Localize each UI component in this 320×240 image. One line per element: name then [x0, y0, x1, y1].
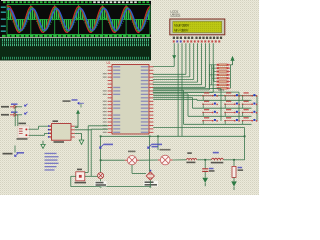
- wires MCU left to U2: [85, 126, 108, 177]
- svg-text:Vin =380V: Vin =380V: [174, 28, 189, 32]
- bridge rectifier D1: [144, 170, 159, 187]
- buzzer component: [95, 173, 107, 187]
- push button S9: [242, 109, 257, 116]
- schematic background grid: [0, 0, 259, 195]
- wire L2 right: [223, 159, 234, 161]
- svg-text:LM016L: LM016L: [171, 13, 181, 17]
- lamp U3 label: [128, 151, 136, 153]
- push button S5: [224, 101, 239, 109]
- crystal X1: [75, 172, 87, 184]
- power symbol arrow right of resistor network: [230, 56, 234, 65]
- keypad row wires: [153, 90, 251, 124]
- LCD pin name row: [173, 37, 222, 39]
- digital graph panel: [0, 37, 151, 61]
- analogue graph panel: [0, 0, 151, 38]
- junction dots: [100, 135, 246, 187]
- LCD pin number row: [173, 40, 220, 42]
- push button S11: [224, 117, 239, 124]
- svg-text:Vout=380V: Vout=380V: [174, 23, 190, 27]
- keypad column wires: [153, 89, 257, 122]
- terminal drop wires: [15, 107, 18, 126]
- lamp U4: [158, 155, 173, 165]
- inductor L1: [186, 158, 196, 163]
- push button S2: [224, 92, 239, 100]
- inductor L2: [211, 158, 224, 163]
- inductor L1 label: [187, 152, 192, 154]
- net label near wire x100: [100, 144, 114, 149]
- push button S12: [242, 117, 257, 124]
- U2 label: [53, 120, 59, 122]
- transformer TR1 label: [19, 123, 27, 125]
- op-amp U2: [48, 124, 75, 143]
- push button S10: [202, 117, 217, 124]
- ground below R1: [231, 181, 237, 190]
- crystal X1 label: [77, 169, 82, 171]
- svg-text:U1: U1: [107, 61, 111, 65]
- push button S3: [242, 92, 257, 100]
- push button S1: [202, 92, 217, 100]
- input terminal 1: [1, 103, 28, 108]
- wire lamp1 to bridge: [132, 165, 146, 174]
- TR1 wires: [29, 126, 48, 135]
- push button S6: [242, 101, 257, 109]
- long wire under MCU: [101, 136, 245, 172]
- LCD display LCD1: [170, 19, 225, 35]
- LCD data/control wires: [153, 43, 213, 136]
- ground below C1: [202, 178, 208, 186]
- wire bridge bottom: [101, 179, 151, 187]
- resistor network RP1: [217, 64, 233, 92]
- U1 left pins: [103, 66, 120, 133]
- microcontroller U1: [112, 65, 149, 135]
- net label near wire x158: [148, 144, 163, 149]
- power symbol above U2: [75, 110, 80, 128]
- U2 right wires: [75, 126, 91, 130]
- transformer TR1: [17, 126, 30, 140]
- blue net label near power: [63, 99, 85, 107]
- annotation text block: [45, 153, 59, 171]
- resistor R1: [232, 160, 243, 181]
- lamp U4 label: [160, 149, 171, 151]
- lamp U3: [125, 156, 139, 165]
- wire MCU to output filter: [153, 128, 244, 160]
- input terminal 2: [1, 111, 28, 116]
- net label bottom-left: [3, 146, 25, 157]
- ground below U2: [41, 141, 45, 149]
- push button S8: [224, 109, 239, 116]
- U1 right pins: [141, 66, 154, 133]
- wire lamp chain: [101, 159, 187, 161]
- capacitor C1: [202, 160, 214, 178]
- push button S4: [202, 101, 217, 109]
- crystal wires: [71, 176, 101, 186]
- ground right of U2: [75, 133, 84, 144]
- inductor L2 label: [213, 152, 219, 154]
- push button S7: [202, 109, 217, 116]
- wire L1 to node: [197, 159, 211, 161]
- ground stub near LCD VSS: [172, 55, 176, 59]
- resistor network feed stubs: [210, 65, 217, 88]
